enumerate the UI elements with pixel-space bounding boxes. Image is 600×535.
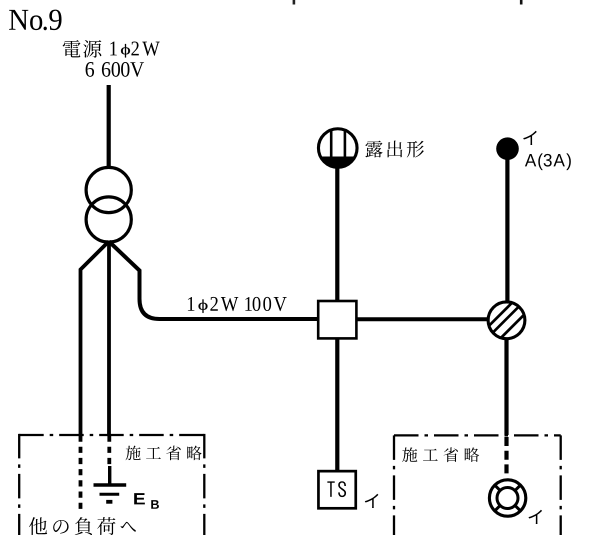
- title No.9: [9, 10, 61, 31]
- label 6 600V: [86, 62, 144, 77]
- wire: ceiling light to junction box: [335, 166, 339, 301]
- automatic switch A(3A) (filled circle): [496, 137, 519, 160]
- wire: left secondary leg: [81, 242, 109, 435]
- transformer T1 secondary circle: [86, 197, 131, 242]
- wire: VVF joint box down (solid): [504, 339, 508, 436]
- label TS: [327, 481, 346, 497]
- timer switch TS (box): [318, 471, 355, 508]
- VVF joint box (circle with diagonal hatch): [488, 302, 525, 339]
- label 電源 (source): [63, 40, 102, 58]
- label 1φ2W (source system): [110, 42, 159, 58]
- label イ (near automatic switch): [523, 131, 537, 145]
- junction box (square): [318, 301, 356, 338]
- label イ (near lamp receptacle): [529, 510, 543, 524]
- transformer T1 primary circle: [86, 167, 131, 212]
- ground symbol EB bar2: [100, 493, 120, 496]
- lamp receptacle イ (double circle with 4 spokes): [489, 480, 525, 516]
- wire: right secondary leg, bend to 100V horizontal run: [109, 242, 318, 320]
- wire: left leg dashed inside 施工省略 (to other loads): [79, 436, 83, 510]
- crop tick top-right: [520, 0, 523, 5]
- wire: 6600V feed into transformer: [107, 85, 111, 169]
- wire: middle secondary leg (neutral): [107, 241, 111, 434]
- label 施工省略 (left): [126, 446, 202, 461]
- label B subscript: [151, 500, 159, 509]
- ground electrode stem: [108, 466, 111, 484]
- label 他の負荷へ (to other loads): [29, 517, 136, 535]
- label イ (near TS): [365, 494, 379, 508]
- wire: junction box to VVF joint box: [356, 317, 488, 321]
- wire: junction box down to timer switch TS: [335, 338, 339, 470]
- construction-omitted boundary box (right): [394, 435, 561, 535]
- label 露出形: [365, 141, 424, 158]
- wire: middle leg dashed to ground: [107, 436, 111, 467]
- label E (ground EB): [134, 493, 145, 504]
- wire: automatic switch down to VVF joint box: [505, 159, 509, 301]
- ceiling light 露出形 (circle, filled bottom segment, two bars): [318, 129, 357, 168]
- label 1φ2W 100V: [188, 297, 287, 313]
- ground symbol EB bar1: [94, 483, 127, 486]
- wire: dashed drop inside 施工省略 to lamp receptacle: [504, 437, 508, 478]
- construction-omitted boundary box (left): [19, 434, 204, 535]
- crop tick top-left: [293, 0, 296, 5]
- ground symbol EB bar3: [106, 500, 112, 504]
- label A(3A): [525, 153, 571, 170]
- label 施工省略 (right): [402, 447, 479, 462]
